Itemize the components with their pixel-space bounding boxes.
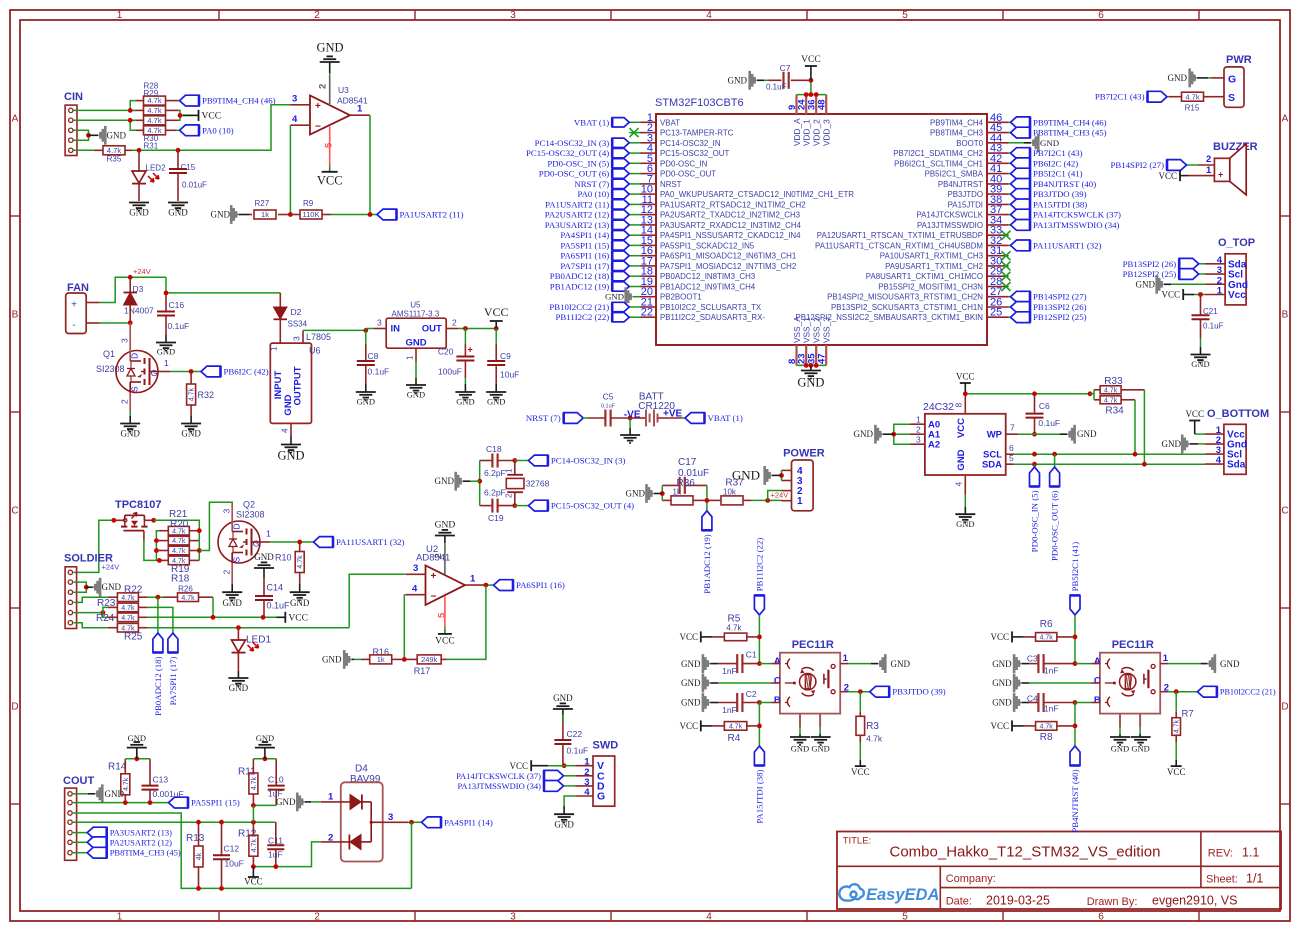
svg-text:VCC: VCC [509, 761, 528, 771]
net flag PB1ADC12 (19) [629, 286, 641, 288]
svg-text:1.1: 1.1 [1242, 845, 1259, 859]
svg-text:8: 8 [954, 403, 964, 408]
svg-text:3: 3 [292, 336, 302, 341]
svg-text:1: 1 [164, 358, 169, 368]
svg-text:6: 6 [1098, 10, 1104, 21]
svg-text:22: 22 [641, 307, 653, 319]
ground U3 pin2 [316, 41, 343, 74]
wire +24V to POWER pin2 [768, 491, 782, 501]
svg-text:GND: GND [1111, 744, 1129, 754]
svg-text:R25: R25 [124, 632, 143, 643]
svg-text:PD0-OSC_OUT (6): PD0-OSC_OUT (6) [539, 169, 610, 179]
svg-text:1: 1 [406, 355, 415, 360]
junction R13 top [196, 820, 201, 825]
net flag PA11USART1 (32) [1009, 244, 1011, 246]
wire +24V rail to D2 [166, 277, 280, 293]
svg-text:4: 4 [954, 482, 964, 487]
svg-text:6: 6 [1009, 443, 1014, 453]
transistor Q1 SI2308 [96, 323, 169, 412]
capacitor C20 polarized [438, 329, 475, 385]
svg-text:1: 1 [1163, 653, 1169, 664]
svg-text:VDD_3: VDD_3 [822, 119, 832, 146]
svg-text:GND: GND [456, 397, 474, 407]
svg-text:PB5I2C1_SMBA: PB5I2C1_SMBA [925, 170, 984, 179]
svg-text:GND: GND [254, 552, 274, 562]
svg-text:PA3USART2 (13): PA3USART2 (13) [110, 828, 172, 838]
wire encoder2 A column [1074, 615, 1076, 664]
net flag PB7I2C1 (43) [1009, 152, 1011, 154]
power flag VCC at R29 [183, 114, 199, 116]
svg-text:4.7k: 4.7k [1040, 635, 1054, 642]
ground flag WP [1060, 425, 1097, 444]
junction stack left r20 [154, 538, 159, 543]
svg-text:1: 1 [117, 10, 123, 21]
net flag PB0ADC12 (18) [629, 275, 641, 277]
ground C22 top [553, 693, 573, 722]
svg-text:4: 4 [281, 428, 290, 433]
wire R34 to SCL [1134, 400, 1136, 454]
svg-text:GND: GND [405, 338, 426, 349]
ground flag 24C32 addr [854, 425, 894, 444]
ground R14 [127, 733, 147, 759]
wire R29-R30 to VCC [179, 110, 181, 115]
ground flag R36 [626, 484, 663, 503]
junction R27-R9 [288, 212, 293, 217]
svg-text:GND: GND [956, 519, 974, 529]
ground flag O_BOTTOM [1162, 435, 1206, 454]
power flag VCC buzzer [1158, 170, 1188, 181]
svg-text:C2: C2 [746, 689, 757, 699]
svg-text:C9: C9 [500, 351, 511, 361]
net flag PA15JTDI (38) [1009, 203, 1011, 205]
net flag PA13JTMSSWDIO (34) [457, 781, 575, 792]
net flag PB14SPI2 (27) [1110, 160, 1198, 171]
svg-text:2: 2 [314, 10, 320, 21]
connector SOLDIER [64, 553, 113, 629]
wire U5 in [366, 328, 374, 330]
svg-text:0.001uF: 0.001uF [153, 789, 184, 799]
ground LED1 [228, 671, 248, 693]
net flag PC14-OSC32_IN (3) [629, 142, 641, 144]
resistor R33 [1094, 376, 1144, 394]
junction C13 bottom [148, 800, 153, 805]
svg-text:PA1USART2 (11): PA1USART2 (11) [545, 199, 609, 209]
svg-text:GND: GND [107, 130, 127, 140]
svg-text:1k: 1k [261, 210, 269, 219]
net flag PB6I2C (42) [201, 366, 221, 377]
encoder1 pin2 [840, 683, 870, 694]
junction R32 top [189, 369, 194, 374]
power flag VCC solder row [276, 612, 308, 624]
svg-text:PA4SPI1 (14): PA4SPI1 (14) [444, 817, 493, 827]
junction LED1 [236, 625, 241, 630]
svg-text:4.7k: 4.7k [866, 734, 883, 744]
svg-text:GND: GND [211, 210, 231, 220]
wire TPC8107 gate down [144, 541, 160, 561]
no-connect pin 31 [1002, 251, 1011, 260]
svg-text:1: 1 [328, 792, 334, 803]
svg-text:GND: GND [222, 598, 242, 608]
svg-text:A: A [774, 656, 781, 667]
wire R33 to SDA [1143, 390, 1145, 464]
svg-text:GND: GND [168, 208, 188, 218]
junction R4 out [757, 724, 762, 729]
wire B2 column down [1074, 703, 1076, 747]
junction R5 out [757, 635, 762, 640]
svg-text:AMS1117-3.3: AMS1117-3.3 [392, 310, 440, 319]
svg-text:3: 3 [510, 10, 516, 21]
svg-text:C: C [1281, 506, 1288, 517]
svg-text:GND: GND [487, 397, 505, 407]
pin 16 PA6SPI1_MISOADC12_IN6TIM3_CH1 [640, 245, 796, 261]
svg-text:Drawn By:: Drawn By: [1087, 896, 1138, 908]
svg-text:1: 1 [266, 529, 271, 539]
net flag PA5SPI1 (15) [629, 244, 641, 246]
transistor TPC8107 [114, 499, 162, 541]
resistor R17 [404, 655, 446, 676]
junction stack left r19 [154, 548, 159, 553]
svg-text:PA5SPI1 (15): PA5SPI1 (15) [191, 798, 240, 808]
diode D2 SS34 [274, 293, 308, 343]
svg-text:PB10I2CC2 (21): PB10I2CC2 (21) [549, 302, 609, 312]
pin 6 PD0-OSC_OUT [640, 163, 716, 179]
ground C9 [486, 384, 506, 407]
ground flag BOOT0 [1009, 142, 1024, 144]
junction C1-A [757, 661, 762, 666]
svg-text:A: A [12, 114, 19, 125]
svg-text:C12: C12 [224, 844, 240, 854]
svg-text:VBAT: VBAT [660, 118, 680, 127]
svg-text:PC14-OSC32_IN (3): PC14-OSC32_IN (3) [551, 456, 626, 466]
power VCC U3 pin5 [317, 172, 343, 188]
connector PWR [1211, 54, 1252, 107]
resistor R34 [1094, 396, 1135, 417]
svg-text:1: 1 [797, 496, 803, 507]
svg-text:PB7I2C1 (43): PB7I2C1 (43) [1033, 148, 1083, 158]
svg-text:4.7k: 4.7k [1104, 387, 1118, 394]
svg-text:PA12USART1_RTSCAN_TXTIM1_ETRUS: PA12USART1_RTSCAN_TXTIM1_ETRUSBDP [817, 231, 983, 240]
svg-text:1: 1 [505, 468, 514, 473]
resistor R19 [156, 546, 199, 575]
net flag PC14-OSC32_IN (3) [515, 455, 626, 466]
rotary encoder SW1 PEC11R [774, 639, 840, 728]
svg-text:Company:: Company: [946, 873, 996, 885]
wire SDA net [1014, 463, 1205, 465]
svg-text:GND: GND [1077, 429, 1097, 439]
resistor R27 [249, 199, 290, 219]
svg-text:4.7k: 4.7k [729, 724, 743, 731]
power flag VCC O_BOTTOM [1185, 409, 1205, 434]
svg-text:SI2308: SI2308 [236, 510, 265, 520]
pin 14 PA4SPI1_NSSUSART2_CKADC12_IN4 [640, 225, 801, 241]
junction C12 top [219, 820, 224, 825]
junction C11 bottom [273, 864, 278, 869]
pin 15 PA5SPI1_SCKADC12_IN5 [640, 235, 755, 251]
svg-text:+: + [71, 300, 77, 311]
resistor R11 [238, 759, 258, 806]
svg-text:1: 1 [357, 104, 363, 115]
net flag PD0-OSC_OUT (6) [629, 173, 641, 175]
svg-text:VCC: VCC [679, 721, 698, 731]
svg-text:PB13SPI2 (26): PB13SPI2 (26) [1033, 302, 1087, 312]
ground flag R16 [322, 650, 361, 669]
svg-text:2: 2 [120, 399, 130, 404]
svg-text:PB10I2CC2 (21): PB10I2CC2 (21) [1220, 688, 1276, 697]
svg-text:PA7SPI1 (17): PA7SPI1 (17) [168, 656, 178, 705]
wire B into encoder [759, 702, 771, 704]
svg-text:6.2pF: 6.2pF [484, 468, 506, 478]
svg-text:PB14SPI2 (27): PB14SPI2 (27) [1033, 292, 1087, 302]
junction POWER gnd [779, 473, 784, 478]
svg-text:O_BOTTOM: O_BOTTOM [1207, 408, 1269, 420]
capacitor C9 [487, 329, 519, 385]
junction R30-R31 [128, 118, 133, 123]
svg-text:0.1uF: 0.1uF [1203, 322, 1224, 331]
pin 2 PC13-TAMPER-RTC [640, 122, 734, 138]
connector CIN [64, 91, 83, 156]
net flag PB6I2C (42) [1009, 162, 1011, 164]
svg-text:1/1: 1/1 [1246, 871, 1263, 885]
svg-text:PB3JTDO (39): PB3JTDO (39) [1033, 189, 1087, 199]
pin 37 PA14JTCKSWCLK [916, 204, 1008, 220]
svg-text:+: + [1218, 170, 1223, 180]
svg-text:STM32F103CBT6: STM32F103CBT6 [655, 97, 744, 109]
svg-text:PB8TIM4_CH3: PB8TIM4_CH3 [930, 129, 984, 138]
wire POWER pins 3-4 gnd [781, 470, 783, 480]
svg-text:PB1ADC12_IN9TIM3_CH4: PB1ADC12_IN9TIM3_CH4 [660, 283, 756, 292]
wire pin5 to R23 [103, 607, 108, 612]
junction WP [1032, 432, 1037, 437]
svg-text:O_TOP: O_TOP [1218, 237, 1255, 249]
wire flag PB0ADC12 stub [157, 597, 159, 633]
junction +24V node [765, 498, 770, 503]
wire R26 to VCC row [212, 597, 214, 617]
svg-text:R20: R20 [170, 519, 189, 530]
pin 29 PA8USART1_CKTIM1_CH1MCO [866, 266, 1009, 282]
svg-text:5: 5 [1009, 453, 1014, 463]
svg-text:PC15-OSC32_OUT (4): PC15-OSC32_OUT (4) [551, 501, 634, 511]
svg-text:0.01uF: 0.01uF [182, 181, 207, 190]
svg-text:PD0-OSC_IN: PD0-OSC_IN [660, 159, 708, 168]
junction Q2 gate [297, 540, 302, 545]
wire TPC8107 out to R21 [154, 520, 200, 530]
connector O_BOTTOM [1205, 408, 1269, 474]
svg-text:LED2: LED2 [146, 164, 167, 173]
net flag PA4SPI1 (14) [629, 234, 641, 236]
svg-text:4k: 4k [196, 852, 203, 860]
ground GND label above C14 [254, 552, 274, 578]
svg-text:PA10USART1_RXTIM1_CH3: PA10USART1_RXTIM1_CH3 [880, 252, 984, 261]
svg-text:4.7k: 4.7k [189, 387, 196, 401]
svg-text:VCC: VCC [1167, 767, 1186, 777]
resistor R7 [1172, 692, 1194, 760]
ground STM32 [797, 365, 824, 389]
junction C21 [1198, 292, 1203, 297]
svg-text:R9: R9 [303, 199, 314, 208]
svg-text:C22: C22 [567, 729, 583, 739]
IC U1 STM32F103CBT6 [655, 97, 987, 345]
svg-text:PEC11R: PEC11R [792, 639, 834, 651]
svg-text:GND: GND [811, 744, 829, 754]
svg-text:PB9TIM4_CH4: PB9TIM4_CH4 [930, 118, 984, 127]
wire C17/R36 right [706, 485, 708, 510]
svg-text:PA5SPI1_SCKADC12_IN5: PA5SPI1_SCKADC12_IN5 [660, 241, 755, 250]
junction R7 top [1174, 689, 1179, 694]
svg-text:0.1uF: 0.1uF [567, 746, 589, 756]
no-connect pin 33 [1002, 231, 1011, 240]
svg-text:GND: GND [681, 678, 701, 688]
svg-text:C1: C1 [746, 650, 757, 660]
svg-text:3: 3 [120, 338, 130, 343]
wire R14/C13 top gnd [125, 758, 150, 760]
svg-text:R32: R32 [198, 390, 215, 400]
net flag NRST (7) [526, 413, 588, 424]
svg-text:1: 1 [843, 653, 849, 664]
EasyEDA logo [839, 884, 939, 904]
svg-text:2: 2 [318, 84, 329, 89]
svg-text:4.7k: 4.7k [121, 595, 135, 602]
svg-text:10uF: 10uF [225, 859, 244, 869]
junction C20 top [463, 326, 468, 331]
op-amp U2 AD8541 [406, 543, 486, 634]
svg-text:-: - [72, 320, 75, 331]
net flag PA13JTMSSWDIO (34) [1009, 224, 1011, 226]
wire SOLDIER pin6 to R25 [74, 623, 109, 628]
svg-text:GND: GND [797, 376, 824, 390]
svg-text:VDD_1: VDD_1 [802, 119, 812, 146]
svg-text:Sheet:: Sheet: [1206, 873, 1238, 885]
svg-text:PB6I2C (42): PB6I2C (42) [224, 367, 269, 377]
wire C row [718, 682, 772, 684]
net flag PB13SPI2 (26) [1009, 306, 1011, 308]
svg-text:VSS_1: VSS_1 [802, 317, 812, 343]
svg-text:A2: A2 [928, 440, 940, 451]
wire R22 out to R26 [148, 596, 163, 598]
wire SOLDIER pin4 to R22 [74, 597, 109, 602]
net flag PA0 (10) [629, 193, 641, 195]
connector FAN [66, 282, 100, 334]
wire stack to Q2 drain [199, 502, 233, 550]
capacitor C12 [213, 822, 244, 888]
svg-text:PA6SPI1 (16): PA6SPI1 (16) [560, 251, 609, 261]
svg-text:4.7k: 4.7k [726, 624, 742, 633]
svg-text:3: 3 [413, 563, 418, 574]
svg-text:PA0 (10): PA0 (10) [202, 125, 234, 135]
ground SWD [554, 806, 574, 830]
net flag PA4SPI1 (14) [422, 817, 442, 828]
net flag PA6SPI1 (16) [494, 580, 514, 591]
svg-text:C18: C18 [486, 444, 502, 454]
pin 7 NRST [640, 173, 682, 189]
ground flag CIN [89, 134, 99, 136]
svg-text:0.1uF: 0.1uF [766, 83, 787, 92]
svg-text:PA1USART2 (11): PA1USART2 (11) [400, 210, 464, 220]
svg-text:VSS_3: VSS_3 [822, 317, 832, 343]
capacitor C10 [268, 759, 285, 806]
svg-text:R17: R17 [414, 666, 431, 676]
wire R33/R34 left join [1090, 390, 1094, 394]
net flag VBAT (1) [682, 413, 743, 424]
svg-text:R29: R29 [144, 89, 159, 98]
svg-text:PA9USART1_TXTIM1_CH2: PA9USART1_TXTIM1_CH2 [885, 262, 983, 271]
svg-text:Sda: Sda [1227, 460, 1246, 471]
pin 32 PA11USART1_CTSCAN_RXTIM1_CH4USBDM [815, 235, 1009, 251]
wire encoder1 A column [758, 615, 760, 664]
net flag PB9TIM4_CH4 (46) [178, 100, 180, 102]
pin 22 PB11I2C2_SDAUSART3_RX- [640, 307, 765, 323]
svg-text:PA14JTCKSWCLK (37): PA14JTCKSWCLK (37) [1033, 210, 1121, 220]
wire U2 out [486, 584, 494, 586]
wire C2 row [1029, 682, 1091, 684]
svg-text:C14: C14 [267, 583, 284, 593]
svg-text:GND: GND [992, 698, 1012, 708]
encoder2 pin1 gnd [1160, 653, 1240, 673]
svg-text:GND: GND [605, 292, 624, 302]
net flag NRST (7) [629, 183, 641, 185]
svg-text:SS34: SS34 [288, 320, 308, 329]
pin 26 PB13SPI2_SCKUSART3_CTSTIM1_CH1N [831, 297, 1009, 313]
svg-text:A: A [1094, 656, 1101, 667]
svg-text:2019-03-25: 2019-03-25 [986, 894, 1050, 908]
svg-text:GND: GND [276, 797, 296, 807]
svg-text:5: 5 [902, 912, 908, 923]
power flag VCC O_TOP [1161, 289, 1205, 300]
svg-text:PB4NJTRST: PB4NJTRST [938, 180, 983, 189]
net flag PB5I2C1 (41) [1009, 173, 1011, 175]
svg-text:4.7k: 4.7k [172, 538, 186, 545]
svg-text:VDD_A: VDD_A [792, 118, 802, 146]
svg-text:GND: GND [553, 693, 573, 703]
svg-text:PA7SPI1 (17): PA7SPI1 (17) [560, 261, 609, 271]
svg-text:SI2308: SI2308 [96, 364, 125, 374]
net flag PB12SPI2 (25) [1009, 316, 1011, 318]
wire U2 feedback [447, 585, 486, 659]
pin 1 VBAT [640, 112, 680, 128]
wire FAN- to Q1 drain [100, 322, 131, 324]
svg-text:R8: R8 [1040, 732, 1053, 743]
capacitor C21 [1192, 295, 1224, 339]
svg-text:C13: C13 [153, 775, 169, 785]
resistor R8 [1024, 722, 1075, 743]
svg-text:2: 2 [222, 570, 232, 575]
pin 10 PA0_WKUPUSART2_CTSADC12_IN0TIM2_CH1_ETR [640, 184, 854, 200]
svg-text:PB12SPI2 (25): PB12SPI2 (25) [1123, 269, 1177, 279]
svg-text:PC15-OSC32_OUT (4): PC15-OSC32_OUT (4) [526, 148, 609, 158]
svg-text:POWER: POWER [783, 448, 825, 460]
net flag PB8TIM4_CH3 (45) [1009, 132, 1011, 134]
svg-text:4.7k: 4.7k [123, 777, 130, 791]
svg-text:VCC: VCC [1185, 409, 1204, 419]
svg-text:GND: GND [290, 598, 310, 608]
pin 31 PA10USART1_RXTIM1_CH3 [880, 245, 1009, 261]
junction C3-A [1073, 661, 1078, 666]
connector SWD [575, 740, 618, 807]
junction R14 bottom [123, 800, 128, 805]
svg-text:OUTPUT: OUTPUT [293, 366, 304, 405]
wire R25 row up to U2 pin3 [349, 574, 406, 627]
wire SCL net [1014, 453, 1205, 455]
pin 19 PB1ADC12_IN9TIM3_CH4 [640, 276, 756, 292]
capacitor C2 [718, 689, 759, 715]
pin 27 PB14SPI2_MISOUSART3_RTSTIM1_CH2N [827, 286, 1008, 302]
net flag PA5SPI1 (15) [169, 797, 189, 808]
svg-text:PA0_WKUPUSART2_CTSADC12_IN0TIM: PA0_WKUPUSART2_CTSADC12_IN0TIM2_CH1_ETR [660, 190, 854, 199]
svg-text:L7805: L7805 [306, 332, 331, 342]
svg-text:PC14-OSC32_IN: PC14-OSC32_IN [660, 139, 721, 148]
ground flag C3 [992, 654, 1029, 673]
svg-text:PA13JTMSSWDIO: PA13JTMSSWDIO [917, 221, 983, 230]
buzzer BUZZER [1189, 141, 1258, 195]
